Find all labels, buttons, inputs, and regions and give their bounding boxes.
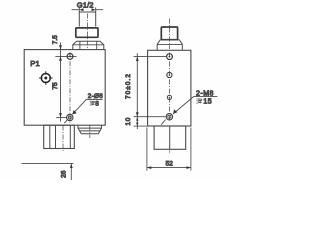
svg-text:75: 75	[52, 82, 59, 90]
callout shelf line 2-M8	[194, 95, 218, 97]
dimension line 70 and 10	[136, 53, 139, 129]
dimension G1/2	[72, 7, 104, 11]
svg-text:2-Ø6: 2-Ø6	[88, 93, 103, 100]
leader to M8 hole	[161, 96, 194, 124]
callout shelf line	[86, 98, 102, 100]
foot centerline	[62, 126, 64, 152]
bottom port horizontal centerline	[56, 117, 66, 119]
dimension 52 line	[147, 167, 191, 169]
boss centerline	[89, 126, 91, 139]
hole M8 extension line	[134, 116, 166, 118]
hex nut front view	[76, 28, 98, 37]
bottom boss front view	[78, 125, 102, 128]
P1 port symbol	[39, 71, 53, 85]
flange shoulder line side view	[157, 43, 182, 45]
foot inner lines	[50, 125, 71, 148]
leader to counterbore	[64, 99, 86, 123]
hole 1 extension line	[134, 56, 167, 58]
svg-text:P1: P1	[30, 59, 40, 68]
top port horizontal centerline	[55, 55, 76, 57]
svg-text:15: 15	[203, 99, 212, 106]
svg-text:70±0.2: 70±0.2	[125, 73, 132, 99]
holes centerline side view	[168, 53, 170, 123]
svg-text:G1/2: G1/2	[77, 1, 94, 10]
hex flange side view	[157, 40, 182, 50]
svg-text:8: 8	[95, 101, 99, 108]
fitting centerline front view	[87, 14, 89, 49]
svg-text:52: 52	[166, 161, 174, 168]
hole 1	[167, 54, 173, 60]
top port circle	[67, 54, 73, 60]
hole 2	[167, 72, 172, 77]
svg-text:10: 10	[125, 117, 132, 126]
hole M8	[166, 114, 172, 120]
hex flange front view	[73, 41, 104, 49]
body outline side view	[148, 50, 191, 126]
bottom block side view	[154, 126, 186, 149]
hex flange shoulder line	[73, 44, 104, 46]
callout depth 15 text	[196, 98, 201, 103]
callout depth 8 text	[90, 101, 95, 106]
svg-text:26: 26	[60, 170, 67, 178]
block centerline continuation	[169, 149, 171, 153]
bottom foot block front view	[44, 125, 75, 148]
bottom port counterbore circle	[67, 114, 73, 120]
dimension 26 extension line	[22, 163, 74, 165]
body outline front view	[24, 50, 105, 126]
port centerline vertical front view	[69, 52, 71, 124]
G1/2 thread stub front view	[79, 12, 95, 27]
bottom edge extension line side view	[134, 125, 148, 127]
svg-text:7.5: 7.5	[52, 35, 59, 44]
hex nut side view	[161, 27, 177, 40]
dimension line 7.5 / 75	[59, 43, 62, 122]
dimension 52 extension lines	[147, 128, 191, 171]
block middle line	[169, 126, 171, 149]
dimension 26 line	[70, 164, 72, 180]
fitting centerline side view	[168, 19, 170, 50]
hex flange facet lines	[80, 41, 97, 49]
hole 3	[167, 95, 171, 99]
